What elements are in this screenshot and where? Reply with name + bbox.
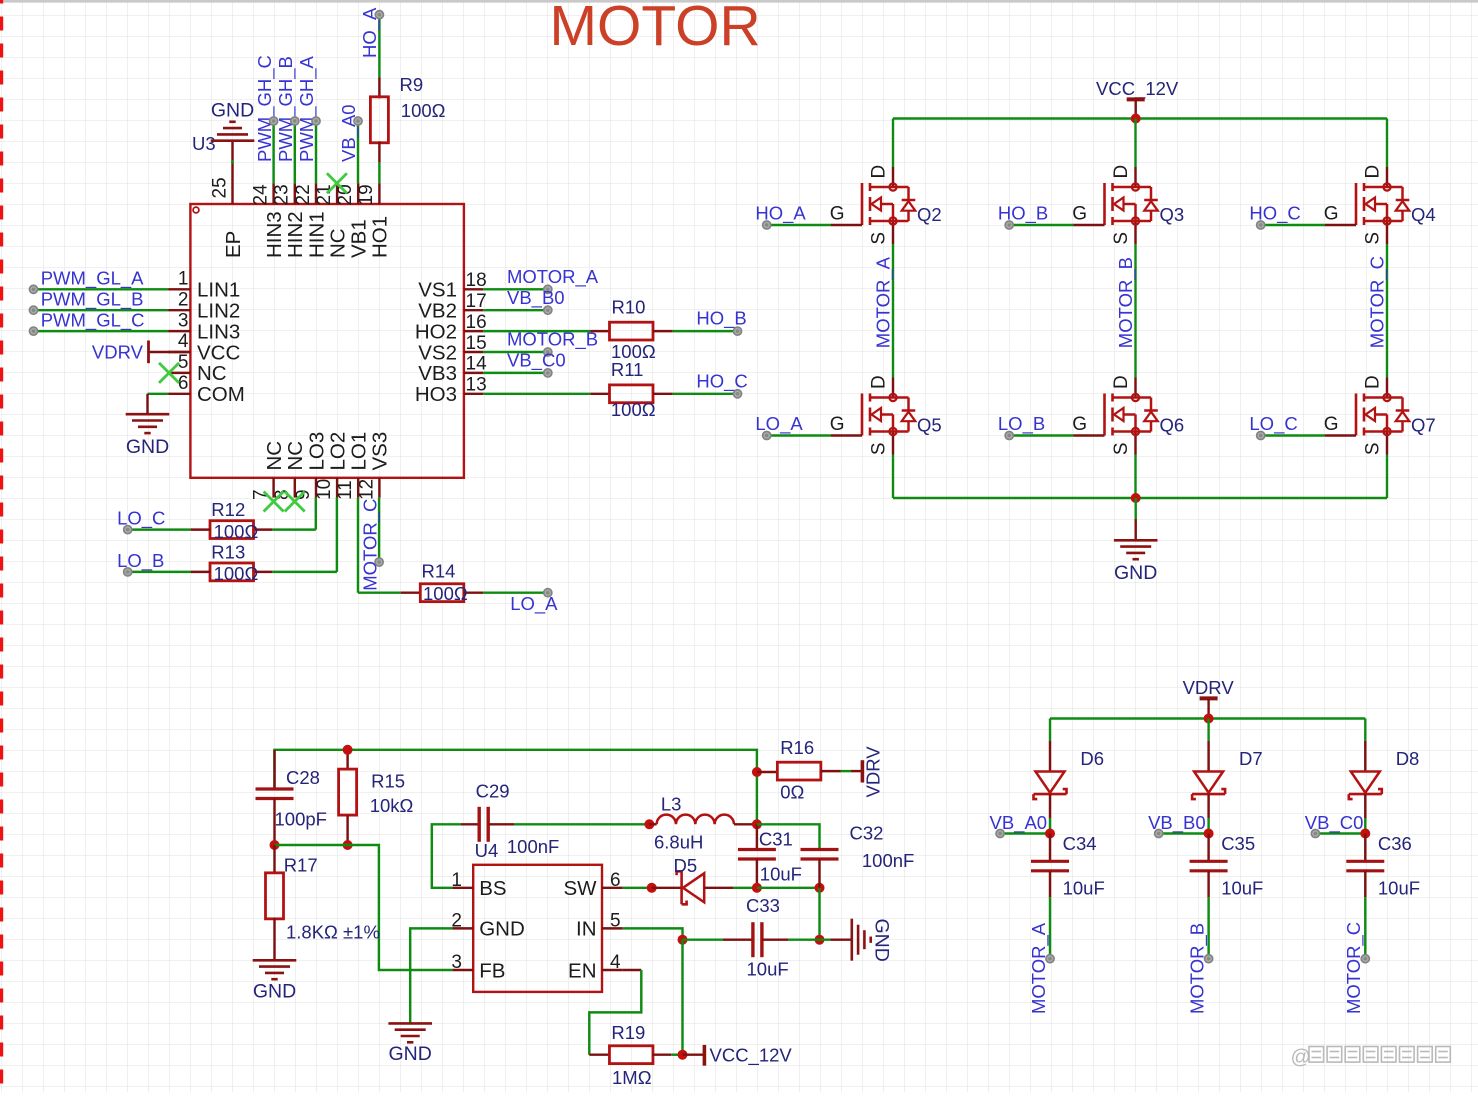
wire net HO_A to Q2 gate (767, 224, 831, 226)
svg-text:R15: R15 (371, 771, 405, 792)
wire VDRV rail (1050, 717, 1365, 719)
wire C33 left (683, 938, 724, 940)
resistor R15 (346, 750, 348, 769)
svg-text:U3: U3 (192, 133, 216, 154)
U3 pin 3 LIN3 (168, 330, 190, 332)
svg-text:R17: R17 (284, 855, 318, 876)
wire R14 to LO_A pad (483, 591, 544, 593)
wire U4 SW to D5 (623, 887, 652, 889)
wire net MOTOR_A phase (892, 244, 894, 378)
no-connect cross U3 pin 21 (327, 173, 347, 193)
svg-text:C29: C29 (476, 781, 510, 802)
svg-text:EP: EP (222, 231, 245, 258)
wire U3 LO3 to R12 (315, 498, 317, 530)
svg-text:VB_C0: VB_C0 (507, 350, 566, 372)
wire R9 to U3 HO1 (378, 162, 380, 183)
U3 pin 13 HO3 (464, 393, 483, 395)
wire U3 HO2 to R10 (483, 330, 590, 332)
svg-text:C31: C31 (759, 829, 793, 850)
svg-text:@: @ (1291, 1047, 1311, 1069)
ground symbol above U3 (EP) (211, 139, 255, 142)
IC U4 body (473, 865, 602, 992)
wire net MOTOR_C phase (1386, 244, 1388, 378)
capacitor C36 (1364, 834, 1366, 862)
U3 pin 20 VB1 (357, 183, 359, 204)
wire C32 top branch (757, 824, 820, 849)
svg-text:VS1: VS1 (418, 279, 457, 302)
pad PWM_GH_B (291, 117, 299, 125)
U4 pin 4 EN (602, 969, 623, 971)
wire IN column down to R19 (681, 940, 683, 1055)
svg-text:MOTOR_B: MOTOR_B (1186, 923, 1208, 1014)
svg-text:D8: D8 (1396, 748, 1420, 769)
pad MOTOR_C (1361, 955, 1369, 963)
svg-text:R12: R12 (211, 499, 245, 520)
resistor R13 (253, 571, 272, 573)
pad HO_C (1257, 221, 1265, 229)
U3 pin 16 HO2 (464, 330, 483, 332)
junction R15 bottom (343, 840, 353, 850)
resistor R19 (589, 1053, 610, 1055)
svg-text:19: 19 (356, 184, 377, 205)
svg-text:100Ω: 100Ω (214, 563, 259, 584)
svg-text:MOTOR_A: MOTOR_A (1028, 922, 1050, 1014)
junction C32 bottom (815, 883, 825, 893)
wire net LO_B to Q6 gate (1009, 434, 1073, 436)
wire D5 anode to C31 bottom (733, 887, 757, 889)
svg-text:R19: R19 (611, 1022, 645, 1043)
svg-text:LO2: LO2 (326, 432, 349, 471)
wire C35 to MOTOR_B pad (1207, 897, 1209, 958)
svg-text:16: 16 (466, 312, 487, 333)
wire Q5 source to ground rail (892, 455, 894, 499)
svg-text:IN: IN (576, 918, 597, 941)
wire U3 COM to ground (148, 393, 169, 395)
junction VCC rail (1131, 114, 1141, 124)
junction ground rail (1131, 493, 1141, 503)
wire net LO_A to Q5 gate (767, 434, 831, 436)
wire top rail of buck (275, 750, 757, 789)
transistor Q4 (1324, 165, 1436, 245)
svg-text:10uF: 10uF (1063, 877, 1105, 898)
svg-text:HO_B: HO_B (696, 308, 746, 330)
junction C31 bottom (752, 883, 762, 893)
pad VB_A0 (996, 829, 1004, 837)
svg-text:GND: GND (253, 980, 296, 1002)
U3 pin 1 LIN1 (168, 288, 190, 290)
wire U3 HO3 to R11 (483, 393, 590, 395)
U3 pin 8 NC (294, 478, 296, 498)
svg-text:R11: R11 (611, 359, 644, 380)
pad LO_B (1005, 431, 1013, 439)
ground symbol below R17 (253, 959, 297, 962)
svg-text:18: 18 (466, 270, 487, 291)
svg-text:25: 25 (209, 177, 230, 198)
svg-text:6: 6 (610, 870, 621, 891)
svg-text:Q6: Q6 (1160, 415, 1185, 436)
wire U4 IN to C33 (623, 928, 683, 939)
pad MOTOR_B (1205, 955, 1213, 963)
svg-text:GND: GND (1114, 562, 1157, 584)
wire net MOTOR_C (U3 VS3) (378, 498, 380, 562)
svg-text:10: 10 (314, 479, 335, 500)
wire net MOTOR_A (483, 288, 544, 290)
svg-text:LO_A: LO_A (510, 593, 558, 615)
capacitor C29 (461, 823, 479, 825)
capacitor C28 (273, 750, 275, 789)
ground symbol below U3 COM (126, 413, 170, 416)
svg-text:13: 13 (466, 375, 487, 396)
wire net VB_C0 (1315, 832, 1365, 834)
U3 pin 21 NC (336, 183, 338, 204)
wire C32 bottom to C33 row (818, 888, 820, 940)
pad LO_C (124, 526, 132, 534)
resistor R16 (757, 771, 778, 773)
U4 pin 5 IN (602, 927, 623, 929)
svg-text:VDRV: VDRV (863, 746, 884, 798)
svg-text:HIN1: HIN1 (305, 211, 328, 258)
wire U4 GND pin to ground (410, 928, 452, 1023)
svg-text:PWM_GL_B: PWM_GL_B (41, 288, 144, 310)
IC U3 body (190, 204, 464, 478)
wire net VB_C0 (483, 372, 544, 374)
wire rail to Q2 drain (892, 119, 894, 168)
svg-text:1.8KΩ ±1%: 1.8KΩ ±1% (286, 921, 380, 942)
svg-text:1: 1 (451, 870, 462, 891)
U3 pin 7 NC (272, 478, 274, 498)
ground symbol below U4 (388, 1022, 432, 1025)
junction VB_C0 node (1360, 829, 1370, 839)
U3 pin 23 HIN2 (294, 183, 296, 204)
svg-text:6.8uH: 6.8uH (654, 832, 703, 853)
wire net PWM_GH_B (294, 121, 296, 183)
resistor R9 (378, 78, 380, 99)
pad LO_C (1257, 431, 1265, 439)
pad PWM_GH_C (270, 117, 278, 125)
ground symbol right of C33 (850, 919, 853, 961)
wire C33 to GND flag (788, 938, 831, 940)
U4 pin 1 BS (452, 887, 473, 889)
U4 pin 2 GND (452, 927, 473, 929)
capacitor C35 (1207, 834, 1209, 862)
pad MOTOR_A (544, 285, 552, 293)
svg-text:HO3: HO3 (415, 383, 457, 406)
svg-text:LIN3: LIN3 (197, 320, 240, 343)
svg-text:6: 6 (178, 373, 189, 394)
wire net VB_B0 (483, 309, 544, 311)
svg-text:COM: COM (197, 383, 245, 406)
junction L3 right / C31 top (752, 819, 762, 829)
svg-text:VCC: VCC (197, 341, 240, 364)
junction VB_A0 node (1045, 829, 1055, 839)
junction C28 bottom (270, 840, 280, 850)
junction SW node (647, 883, 657, 893)
svg-text:VS3: VS3 (369, 432, 392, 471)
svg-text:D5: D5 (674, 855, 698, 876)
junction R16 branch (752, 767, 762, 777)
svg-text:PWM_GL_C: PWM_GL_C (41, 309, 145, 331)
transistor Q2 (830, 165, 942, 245)
svg-text:LO3: LO3 (305, 432, 328, 471)
pad HO_B (1005, 221, 1013, 229)
svg-text:HO2: HO2 (415, 320, 457, 343)
junction R15 top (343, 745, 353, 755)
U3 pin 6 COM (168, 393, 190, 395)
transistor Q3 (1072, 165, 1184, 245)
svg-text:14: 14 (466, 354, 488, 375)
svg-text:VS2: VS2 (418, 341, 457, 364)
svg-text:PWM_GH_B: PWM_GH_B (275, 56, 297, 162)
transistor Q7 (1324, 375, 1436, 455)
svg-text:Q3: Q3 (1160, 204, 1185, 225)
capacitor C33 (723, 938, 753, 940)
svg-text:10uF: 10uF (1378, 877, 1420, 898)
svg-text:EN: EN (568, 959, 596, 982)
diode D5 (652, 887, 682, 889)
wire rail to Q4 drain (1386, 119, 1388, 168)
wire net PWM_GL_B (34, 309, 169, 311)
wire R11 to HO_C pad (673, 393, 734, 395)
wire SW row to C32 (757, 887, 820, 889)
svg-text:3: 3 (451, 952, 462, 973)
pad HO_A (763, 221, 771, 229)
power flag VCC_12V bottom (703, 1045, 707, 1066)
wire U3 LO2 to R13 (336, 498, 338, 572)
U3 pin 10 LO2 (336, 478, 338, 498)
svg-text:R9: R9 (400, 74, 424, 95)
pad PWM_GH_A (312, 117, 320, 125)
pad VB_B0 (1155, 829, 1163, 837)
svg-text:GND: GND (211, 100, 254, 122)
pad LO_A (763, 431, 771, 439)
wire rail to Q3 drain (1134, 119, 1136, 168)
svg-text:MOTOR_B: MOTOR_B (1115, 257, 1137, 348)
svg-text:LO_B: LO_B (998, 413, 1045, 435)
svg-text:NC: NC (263, 441, 286, 471)
svg-text:C34: C34 (1063, 833, 1097, 854)
wire net HO_B to Q3 gate (1009, 224, 1073, 226)
U3 pin 11 LO1 (357, 478, 359, 498)
svg-text:HIN2: HIN2 (284, 211, 307, 258)
junction R19 right (678, 1050, 688, 1060)
wire net HO_C to Q4 gate (1261, 224, 1325, 226)
svg-text:GND: GND (126, 436, 169, 458)
svg-text:SW: SW (563, 877, 597, 900)
capacitor C31 (756, 824, 758, 849)
wire net PWM_GL_C (34, 330, 169, 332)
svg-text:100Ω: 100Ω (611, 399, 656, 420)
diode D7 (1207, 741, 1209, 772)
wire net PWM_GH_A (315, 121, 317, 183)
wire net MOTOR_B phase (1134, 244, 1136, 378)
wire net MOTOR_B (483, 351, 544, 353)
wire U4 EN loop to R19 (623, 969, 642, 971)
svg-text:4: 4 (610, 952, 621, 973)
svg-text:VB_B0: VB_B0 (507, 287, 565, 309)
wire Q6 source to ground rail (1134, 455, 1136, 499)
capacitor C34 (1049, 834, 1051, 862)
U3 pin 18 VS1 (464, 288, 483, 290)
svg-text:BS: BS (479, 877, 506, 900)
svg-text:MOTOR_C: MOTOR_C (1343, 922, 1365, 1014)
resistor R14 (401, 591, 421, 593)
pad VB_C0 (1311, 829, 1319, 837)
U3 pin 19 HO1 (378, 183, 380, 204)
wire rail to ground symbol (1134, 498, 1136, 519)
wire SW column (756, 762, 758, 824)
svg-text:VB_A0: VB_A0 (338, 104, 360, 162)
svg-text:MOTOR_A: MOTOR_A (507, 266, 599, 288)
svg-text:5: 5 (178, 352, 189, 373)
svg-text:NC: NC (197, 362, 227, 385)
svg-text:15: 15 (466, 333, 487, 354)
resistor R12 (253, 528, 272, 530)
pad MOTOR_C (375, 558, 383, 566)
U3 pin 4 VCC (168, 351, 190, 353)
diode D8 (1364, 741, 1366, 772)
svg-text:HO_B: HO_B (998, 203, 1048, 225)
svg-text:Q2: Q2 (917, 204, 942, 225)
svg-text:Q7: Q7 (1411, 415, 1436, 436)
junction L3 left (644, 819, 654, 829)
svg-text:GND: GND (870, 919, 892, 962)
ground symbol below bridge (1114, 539, 1158, 542)
U3 pin 24 HIN3 (272, 183, 274, 204)
wire R19 to VCC_12V (671, 1053, 682, 1055)
svg-text:U4: U4 (475, 840, 499, 861)
svg-text:100Ω: 100Ω (401, 100, 446, 121)
U3 pin 22 HIN1 (315, 183, 317, 204)
svg-text:Q4: Q4 (1411, 204, 1436, 225)
svg-text:C32: C32 (850, 823, 884, 844)
svg-text:VB1: VB1 (348, 219, 371, 258)
svg-text:NC: NC (326, 228, 349, 258)
wire C34 to MOTOR_A pad (1049, 897, 1051, 958)
wire VDRV rail to D6 (1049, 719, 1051, 742)
svg-text:C33: C33 (746, 895, 780, 916)
pad MOTOR_A (1046, 955, 1054, 963)
svg-text:4: 4 (178, 331, 189, 352)
svg-text:VCC_12V: VCC_12V (1096, 78, 1179, 100)
diode D6 (1049, 741, 1051, 772)
svg-text:HO_C: HO_C (1249, 203, 1300, 225)
U3 pin 14 VB3 (464, 372, 483, 374)
U3 pin 2 LIN2 (168, 309, 190, 311)
resistor R17 (273, 845, 275, 874)
svg-text:LIN2: LIN2 (197, 300, 240, 323)
svg-text:3: 3 (178, 310, 189, 331)
wire net PWM_GL_A (34, 288, 169, 290)
svg-text:1: 1 (178, 269, 189, 290)
svg-text:VB2: VB2 (418, 300, 457, 323)
inductor L3 (649, 823, 656, 825)
wire net VB_A0 (U3 VB1) (357, 121, 359, 183)
wire U3 LO1 to R14 (357, 498, 359, 593)
svg-text:10kΩ: 10kΩ (370, 795, 414, 816)
junction C33 left (678, 935, 688, 945)
wire U4 BS to C29 (432, 824, 461, 888)
svg-text:D6: D6 (1080, 748, 1104, 769)
pad MOTOR_B (544, 348, 552, 356)
pad PWM_GL_B (29, 306, 37, 314)
svg-text:17: 17 (466, 291, 487, 312)
U3 pin 9 LO3 (315, 478, 317, 498)
wire VCC_12V top rail (893, 117, 1387, 119)
wire net LO_C to Q7 gate (1261, 434, 1325, 436)
svg-text:R10: R10 (612, 297, 646, 318)
U3 pin 12 VS3 (378, 478, 380, 498)
svg-text:10uF: 10uF (760, 864, 802, 885)
svg-text:23: 23 (272, 184, 293, 205)
svg-text:C36: C36 (1378, 833, 1412, 854)
red dashed page border left (0, 0, 3, 1092)
wire VDRV rail to D8 (1364, 719, 1366, 742)
wire R10 to HO_B pad (673, 330, 734, 332)
svg-text:22: 22 (293, 184, 314, 205)
svg-text:PWM_GH_A: PWM_GH_A (296, 55, 318, 162)
svg-text:HO_C: HO_C (696, 370, 747, 392)
wire R13 to LO_B pad (132, 571, 191, 573)
pad HO_A (375, 11, 383, 19)
pad VB_A0 (354, 117, 362, 125)
svg-text:FB: FB (479, 959, 505, 982)
no-connect cross U3 pin 8 (285, 492, 305, 512)
svg-text:GND: GND (389, 1043, 432, 1065)
U3 pin 15 VS2 (464, 351, 483, 353)
svg-text:R16: R16 (780, 737, 814, 758)
svg-text:11: 11 (335, 480, 356, 500)
no-connect cross U3 pin 5 (159, 363, 179, 383)
U3 pin 5 NC (168, 372, 190, 374)
junction VB_B0 node (1204, 829, 1214, 839)
svg-text:100Ω: 100Ω (423, 583, 468, 604)
svg-text:NC: NC (284, 441, 307, 471)
svg-text:100nF: 100nF (862, 850, 914, 871)
pad LO_B (124, 568, 132, 576)
pad VB_B0 (544, 306, 552, 314)
pad PWM_GL_C (29, 327, 37, 335)
svg-text:LO1: LO1 (348, 432, 371, 471)
wire net VB_A0 (1000, 832, 1050, 834)
net flag VDRV at U3 pin 4 (149, 351, 191, 353)
svg-text:MOTOR_C: MOTOR_C (1367, 256, 1389, 348)
svg-text:PWM_GL_A: PWM_GL_A (41, 268, 144, 290)
pad HO_C (733, 390, 741, 398)
wire Q7 source to ground rail (1386, 455, 1388, 499)
capacitor C32 (801, 848, 839, 851)
svg-text:D7: D7 (1239, 748, 1263, 769)
pad HO_B (733, 327, 741, 335)
wire net PWM_GH_C (272, 121, 274, 183)
pad LO_A (544, 589, 552, 597)
svg-text:R14: R14 (422, 560, 456, 581)
svg-text:1MΩ: 1MΩ (612, 1067, 652, 1088)
svg-text:LIN1: LIN1 (197, 279, 240, 302)
svg-text:HIN3: HIN3 (263, 211, 286, 258)
U4 pin 6 SW (602, 887, 623, 889)
svg-text:GND: GND (479, 918, 525, 941)
pad VB_C0 (544, 369, 552, 377)
wire HO_A to R9 (378, 15, 380, 78)
wire C36 to MOTOR_C pad (1364, 897, 1366, 958)
wire C29 to SW node (514, 823, 649, 825)
svg-text:HO1: HO1 (369, 216, 392, 258)
wire net VB_B0 (1159, 832, 1209, 834)
svg-text:100Ω: 100Ω (214, 521, 259, 542)
svg-text:HO_A: HO_A (755, 203, 806, 225)
resistor R10 (590, 330, 609, 332)
junction C33 right (815, 935, 825, 945)
